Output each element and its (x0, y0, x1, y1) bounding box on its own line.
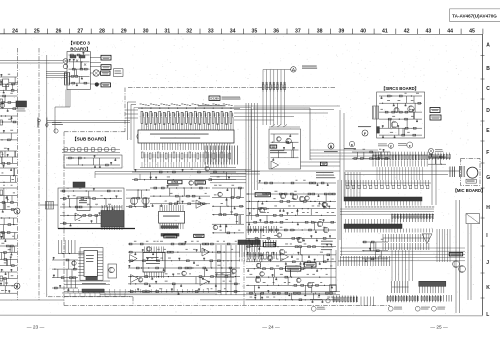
svg-text:34: 34 (230, 29, 236, 35)
scan noise texture (0, 36, 483, 314)
callout circle K (344, 141, 356, 149)
sub board boundary left dash-dot (63, 132, 65, 306)
svg-text:F: F (364, 132, 366, 136)
svg-text:— 23 —: — 23 — (27, 325, 45, 331)
bottom callout circle 3 (432, 306, 446, 311)
transistor QA4 (322, 202, 327, 207)
wires sw-to-main (310, 150, 378, 159)
transistor box board2 (108, 264, 117, 278)
left board 1 IC hatch (101, 205, 124, 230)
page number 25 (430, 325, 448, 331)
IC600 label box (255, 193, 270, 197)
MIC BOARD label (453, 188, 486, 193)
label box VIDEO 1 (101, 55, 111, 60)
transistor Q703 (391, 122, 397, 128)
wire pair into sub board (128, 102, 137, 140)
op-amp IC506 (202, 248, 210, 256)
transistor QA2 (292, 194, 297, 199)
input box top left (2, 79, 17, 87)
IC1200 bottom passives (141, 152, 230, 162)
callout A caption (302, 66, 317, 69)
callout circle C (14, 208, 20, 214)
IC1200 body (137, 130, 234, 143)
left edge circuit cluster 3 (0, 115, 17, 123)
sub board boundary right dash-dot (243, 252, 245, 306)
wires down from connector (263, 91, 285, 125)
digital mid wires (340, 209, 434, 214)
mid strip circuits (132, 167, 236, 186)
svg-text:39: 39 (339, 29, 345, 35)
left board 2 caption (82, 283, 106, 284)
mic wire (345, 155, 460, 205)
wire pair into VIDEO 3 board (0, 61, 63, 64)
VIDEO 3 board outline (67, 52, 90, 90)
SW dark part left (377, 127, 380, 134)
sub board boundary top dash-dot (64, 131, 125, 133)
mic area parts (428, 154, 446, 165)
IC500 label box (168, 180, 182, 184)
svg-text:L: L (486, 312, 489, 318)
IC500 hatch bar 1 (161, 226, 178, 229)
right board nested wire bends (246, 190, 252, 250)
svg-text:32: 32 (186, 29, 192, 35)
parts row under right box (258, 180, 336, 186)
transistor Q701 (408, 106, 414, 112)
svg-text:42: 42 (404, 29, 410, 35)
op-amp analog1 (281, 253, 289, 262)
dark comb IC at sub board right (238, 240, 260, 262)
SUB BOARD label (72, 136, 109, 142)
transistor QA9 (267, 255, 272, 260)
IC500 pins (160, 205, 183, 229)
EQ block (16, 101, 27, 111)
display connector comb (333, 296, 358, 303)
IC1200 label box (209, 96, 220, 101)
right inner greek (270, 150, 287, 153)
mid bus wires (210, 170, 246, 234)
long verticals lower center (216, 245, 236, 295)
wires right from inner box (245, 162, 340, 171)
bottom right comb 2 (419, 281, 446, 293)
SW connector comb (373, 152, 429, 161)
svg-text:45: 45 (469, 29, 475, 35)
IC601 dark label (270, 145, 277, 148)
SW label box 1 (430, 108, 440, 113)
svg-text:【SIRCS BOARD】: 【SIRCS BOARD】 (381, 86, 419, 91)
dark part top board1 (73, 182, 85, 187)
grid ruler top with column numbers 24-45 (0, 29, 483, 35)
svg-text:24: 24 (12, 29, 18, 35)
IC601L vertical body (78, 251, 103, 277)
svg-text:28: 28 (99, 29, 105, 35)
transistor Q502 (142, 197, 149, 204)
video board connector CN (64, 73, 70, 86)
S-video jack (93, 70, 99, 76)
SW label box 2 (430, 115, 441, 120)
svg-text:33: 33 (208, 29, 214, 35)
left edge circuit cluster 1 (0, 74, 17, 94)
left board boundary dash-dot (18, 48, 47, 300)
IC1200 top labels row (140, 104, 233, 106)
wires into video board left (46, 72, 67, 78)
bottom callout circle 2 (415, 306, 430, 311)
IC1200 caption text (198, 97, 241, 107)
right board top outline (253, 108, 310, 160)
bottom comb row 3 (421, 295, 442, 302)
SW board circuits (379, 93, 422, 138)
svg-text:TA-AV467(U)AV470G: TA-AV467(U)AV470G (452, 13, 497, 18)
SW comb extension right (429, 153, 450, 161)
transistor Q702 (394, 108, 399, 113)
sub board long wires (95, 172, 260, 181)
wires into IC1200 left (125, 110, 138, 118)
op-amp IC504 (200, 277, 208, 286)
IC1200 bottom pins (142, 143, 230, 150)
video input jack J2 (63, 64, 67, 68)
svg-text:— 24 —: — 24 — (262, 325, 280, 331)
svg-text:J: J (486, 260, 489, 266)
IC500 caption (168, 185, 179, 186)
page number 23 (27, 325, 45, 331)
right vertical wire pair 2 (468, 224, 471, 300)
left edge circuit cluster 4 (0, 130, 17, 141)
heavy bus rail board1 (58, 228, 135, 230)
digital connector comb 2 (383, 234, 430, 242)
right vertical wire pair 1 (456, 200, 460, 313)
IC502 label box (164, 235, 177, 238)
transistor QA12 (255, 277, 260, 282)
svg-text:B: B (486, 66, 490, 72)
relay box (466, 214, 480, 224)
bottom callout circle 0 (311, 306, 325, 311)
IC601 label box b (264, 242, 276, 246)
svg-text:36: 36 (273, 29, 279, 35)
svg-text:29: 29 (121, 29, 127, 35)
analog area circuits (246, 191, 336, 303)
left edge circuit cluster 6 (0, 165, 17, 183)
digital bus verticals (345, 172, 360, 197)
parts row below comb (346, 180, 431, 189)
op-amp digital (422, 234, 432, 244)
right caption lines (316, 172, 335, 178)
svg-text:E: E (16, 285, 18, 289)
transistor QA7 (259, 207, 264, 212)
IC500 body (159, 211, 185, 223)
transistor QD2 (459, 266, 466, 273)
svg-text:30: 30 (143, 29, 149, 35)
comb bar IC701 (344, 197, 422, 206)
SW exit wires (377, 167, 423, 180)
svg-text:G: G (486, 175, 490, 181)
long wires bottom analog (64, 292, 340, 300)
IC1200 top wire row (138, 108, 240, 109)
bottom callout circle 1 (388, 306, 402, 311)
main board boundary top dash-dot (128, 87, 336, 89)
IC1200 bottom bus wire (140, 162, 236, 168)
svg-text:31: 31 (164, 29, 170, 35)
MIC board outline dash-dot (461, 159, 481, 186)
left board 1 outline (58, 188, 124, 229)
display board callout (310, 299, 330, 303)
left board 2 hatch bar (86, 276, 98, 280)
digital connector comb 4 (338, 256, 390, 266)
page number 24 (262, 325, 280, 331)
svg-text:【MIC BOARD】: 【MIC BOARD】 (453, 188, 486, 193)
svg-text:IC1200: IC1200 (210, 98, 219, 101)
IC501 label box (195, 181, 205, 184)
transistor QA5 (317, 221, 322, 226)
svg-text:A: A (486, 43, 490, 49)
junction connectors mid (38, 118, 130, 128)
bottom page rule (0, 314, 483, 317)
transistor QA10 (307, 282, 312, 287)
callout circle B (324, 143, 338, 152)
transistor Q601 (286, 138, 291, 143)
transistor Q501 (130, 197, 137, 204)
callout jack near sub label (52, 122, 63, 133)
IC502 pins (145, 247, 164, 279)
label box VIDEO 2 (101, 65, 111, 70)
svg-text:E: E (390, 144, 392, 148)
transistor QA3 (299, 196, 304, 201)
bottom bus wire with drops (62, 281, 215, 297)
digital circuits lower (362, 239, 388, 262)
S-video label box (101, 71, 110, 75)
callout circle F2 (398, 142, 413, 148)
svg-text:F: F (486, 150, 489, 156)
sub board shallow box (64, 155, 122, 168)
left board 2 circuits (52, 257, 78, 291)
digital verticals down (392, 229, 450, 281)
SW connector comb 2 (373, 161, 427, 167)
IC503 label box (194, 234, 204, 237)
caption lower center (215, 272, 234, 278)
REL label box (449, 253, 463, 256)
video board dark parts (70, 56, 86, 66)
svg-text:27: 27 (77, 29, 83, 35)
svg-text:F: F (409, 144, 411, 148)
IC1200 section outline (134, 108, 251, 170)
svg-text:41: 41 (382, 29, 388, 35)
svg-text:K: K (486, 285, 490, 291)
SW left edge connector (373, 106, 379, 119)
bottom comb row 2 (387, 295, 419, 302)
left edge circuit cluster 9 (0, 243, 17, 267)
transistor QA1 (280, 193, 285, 198)
right caption block (321, 241, 333, 250)
comb bar IC702 (344, 219, 433, 233)
svg-text:38: 38 (317, 29, 323, 35)
IC1200 top passives row (141, 111, 233, 124)
callout circle E2 (378, 143, 394, 148)
mic connector bars (450, 166, 464, 177)
small jack label box (101, 83, 111, 87)
video input jack J1 (63, 59, 68, 64)
display vertical group (361, 297, 373, 307)
svg-text:43: 43 (426, 29, 432, 35)
hatch bar bottom (82, 289, 104, 292)
left edge circuit cluster 5 (0, 148, 17, 164)
IC1200 top pins (142, 117, 233, 130)
microphone (467, 167, 478, 178)
left edge cut components (0, 80, 3, 281)
comb bar IC701 labels (345, 206, 434, 209)
wires right of video board (90, 58, 101, 85)
vertical wires x340 (338, 110, 344, 256)
IC602 label box (286, 266, 301, 271)
VIDEO 3 BOARD label (68, 41, 91, 53)
row of parts mid-right (352, 149, 390, 160)
svg-text:IC500: IC500 (171, 181, 178, 184)
wires down into board2 (58, 240, 84, 254)
left section bottom boundary dash-dot (48, 297, 133, 306)
svg-text:D: D (486, 108, 490, 114)
svg-text:25: 25 (34, 29, 40, 35)
title block TA-AV467(U)AV470G (450, 9, 500, 22)
digital connector comb 3 (383, 243, 429, 250)
main board boundary left upper dash-dot (124, 88, 126, 132)
left edge circuit cluster 7 (0, 185, 17, 213)
left edge circuit cluster 2 (0, 93, 17, 112)
transistor QA6 (323, 227, 328, 232)
sub board connector row (62, 148, 120, 153)
bottom left double wire (0, 299, 64, 301)
op-amp IC505 (130, 255, 138, 263)
video board internals (69, 52, 90, 86)
SW board outline (377, 92, 425, 138)
sub board boundary bottom dash-dot (64, 305, 390, 307)
bottom comb row 4 (444, 295, 452, 302)
IC500 hatch bar 2 (161, 234, 179, 237)
cap row left of IC500 (126, 189, 150, 207)
callout circle A (291, 67, 296, 72)
transistor QA11 (279, 249, 284, 254)
dense column block right of IC1200 bottom (205, 146, 237, 165)
op-amp right inner (271, 161, 279, 169)
op-amp IC507 (131, 275, 139, 283)
SIRCS BOARD label (381, 86, 419, 91)
svg-text:26: 26 (56, 29, 62, 35)
transistor QA8 (297, 237, 302, 242)
svg-text:H: H (486, 205, 490, 211)
small jack (95, 83, 99, 87)
svg-text:C: C (486, 86, 490, 92)
op-amp IC501a (196, 200, 204, 208)
comb row right upper (392, 214, 434, 223)
op-amp left1 (75, 213, 82, 221)
IC502 body (143, 253, 165, 273)
svg-text:40: 40 (360, 29, 366, 35)
resistor array rows (248, 226, 277, 259)
IC603 label box (304, 263, 316, 267)
IC301 box (77, 197, 90, 211)
svg-text:44: 44 (447, 29, 453, 35)
lower center circuit area (128, 241, 240, 295)
left edge circuit cluster 8 (0, 217, 17, 242)
connector CN to main board (262, 82, 285, 92)
connector across boundary (40, 202, 58, 210)
switch symbols (269, 125, 300, 128)
callout circle F (358, 126, 371, 136)
PLAY label box (320, 162, 327, 165)
transistor QD1 (453, 261, 460, 268)
digital horizontal wires (340, 248, 465, 261)
bottom right comb 1 (392, 281, 409, 293)
bus right of IC1200 (246, 103, 257, 190)
right border with row letters A-L (481, 34, 491, 318)
wires up from connector (263, 70, 291, 83)
mic label box (466, 179, 476, 183)
svg-text:35: 35 (252, 29, 258, 35)
left edge circuit cluster 10 (0, 269, 17, 293)
callout circle E (14, 283, 20, 289)
left board 1 circuits (60, 188, 122, 227)
right inner box (269, 129, 301, 169)
video board exit wires (55, 90, 70, 134)
right edge verticals (330, 250, 337, 292)
callout circle X (428, 148, 443, 153)
bus bends right of IC1200 (234, 106, 340, 120)
IC500 circuit area (150, 185, 210, 207)
svg-text:37: 37 (295, 29, 301, 35)
left board 2 inner outline (80, 248, 103, 281)
connector bracket to main (114, 69, 124, 77)
svg-text:— 25 —: — 25 — (430, 325, 448, 331)
